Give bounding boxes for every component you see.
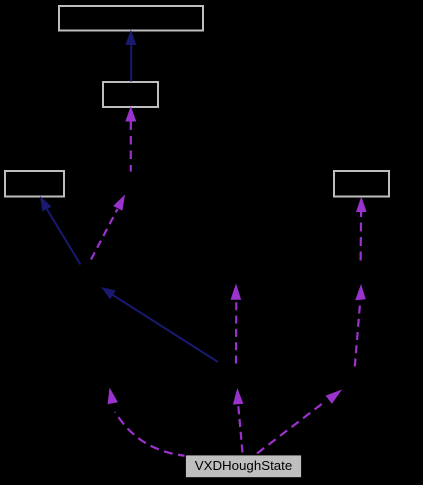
usage arrow P8 (purple dashed, diagonal right from VXDHoughState) (257, 390, 342, 454)
inheritance arrow E3 (navy, diagonal mid) (101, 287, 218, 362)
node VXDHoughState (current node, grey fill) (185, 455, 302, 478)
usage arrow P2 (purple dashed, short diagonal) (91, 195, 125, 260)
usage arrow P7 (purple dashed, up into right box) (356, 197, 367, 261)
usage arrow P1 (purple dashed, up into box2) (125, 106, 136, 172)
inheritance arrow E1 (navy, box2 -> box1) (125, 30, 136, 82)
node box second (empty, grey border) (103, 82, 158, 107)
inheritance arrow E2 (navy, diagonal to left box) (40, 196, 81, 265)
usage arrow P3 (purple dashed, centre upper) (231, 284, 242, 364)
usage arrow P6 (purple dashed, right column lower) (355, 284, 366, 367)
svg-text:VXDHoughState: VXDHoughState (195, 458, 293, 473)
usage arrow P4 (purple dashed, centre lower from VXDHoughState) (233, 388, 244, 453)
node box left (empty, grey border) (5, 171, 64, 197)
usage arrow P5 (purple dashed, curved left from VXDHoughState) (108, 388, 187, 457)
node box top (empty, grey border) (59, 6, 203, 31)
node box right (empty, grey border) (334, 171, 389, 197)
